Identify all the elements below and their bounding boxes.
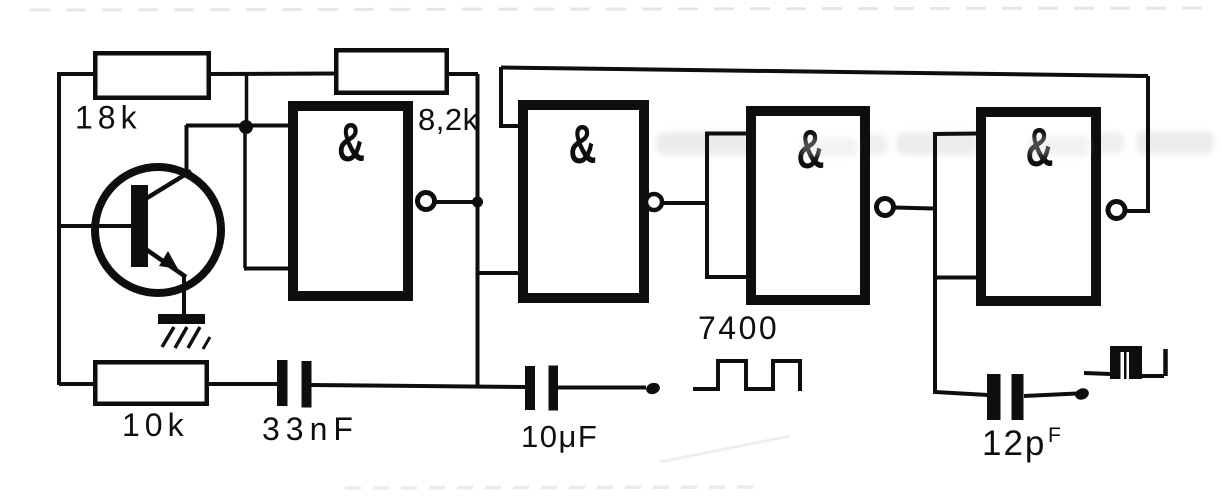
wire feedback rail x478	[476, 74, 480, 387]
NAND gate U1	[293, 106, 408, 296]
resistor R2 10k	[95, 362, 207, 404]
wire 10k to C1	[207, 382, 278, 386]
capacitor C3 12pF	[987, 374, 1024, 420]
wire down to C3	[935, 134, 988, 395]
svg-text:&: &	[569, 114, 597, 175]
bubble U2 output	[646, 194, 662, 210]
wire node A to gate1 top input	[186, 124, 292, 128]
wire gate1 bottom input	[244, 267, 292, 271]
wire base lead	[59, 224, 133, 228]
svg-text:7400: 7400	[698, 310, 779, 346]
wire feedback top	[501, 68, 1148, 77]
capacitor C1 33nF	[277, 360, 312, 408]
svg-text:&: &	[337, 112, 365, 173]
waveform square wave	[693, 361, 800, 391]
transistor Q1	[95, 167, 221, 293]
wire gate4 top input stub	[933, 132, 978, 137]
wire 8.2k right lead	[447, 72, 478, 76]
svg-text:10μF: 10μF	[521, 419, 598, 454]
wire left vertical rail	[57, 74, 61, 385]
wire collector riser	[185, 125, 189, 175]
svg-text:18k: 18k	[75, 100, 142, 136]
resistor R3 8.2k	[336, 50, 447, 93]
svg-text:12p: 12p	[982, 424, 1046, 463]
arrow tip output1	[645, 381, 662, 396]
NAND gate U2	[523, 105, 644, 298]
wire 18k left lead	[57, 72, 97, 76]
NAND gate U3	[751, 111, 865, 300]
resistor R1 18k	[95, 53, 209, 98]
NAND gate U4	[981, 112, 1096, 301]
wire bottom left	[59, 382, 95, 386]
waveform burst	[1084, 346, 1166, 379]
wire emitter down	[182, 275, 186, 316]
wire U3 input tie rectangle	[707, 134, 750, 278]
bubble U3 output	[877, 199, 894, 216]
bubble U4 output	[1108, 202, 1125, 219]
wire C3 output	[1024, 394, 1077, 397]
wire drop to node A	[245, 75, 249, 126]
svg-text:33nF: 33nF	[262, 411, 359, 447]
svg-text:8,2k: 8,2k	[418, 102, 479, 137]
wire U3 bubble out	[894, 208, 933, 209]
bubble U1 output	[418, 193, 435, 210]
node B junction dot	[472, 197, 483, 208]
wire gate2 top input	[501, 67, 523, 126]
wire node A down	[243, 127, 247, 268]
node A junction dot	[239, 120, 253, 134]
svg-text:10k: 10k	[122, 407, 189, 443]
capacitor C2 10uF	[525, 366, 558, 411]
wire U2 to U3 input link	[662, 201, 707, 205]
arrow tip output2	[1074, 386, 1091, 401]
wire C2 output	[558, 386, 646, 390]
wire U4 bubble to feedback	[1126, 76, 1148, 211]
svg-text:F: F	[1048, 424, 1061, 447]
wire gate2 bottom input	[477, 271, 523, 275]
wire 18k to 8.2k	[209, 72, 336, 77]
wire C1 to C2	[311, 385, 525, 387]
wire U1 bubble to node B	[436, 200, 475, 204]
ground	[158, 314, 210, 349]
wire gate4 bottom input stub	[933, 276, 978, 280]
